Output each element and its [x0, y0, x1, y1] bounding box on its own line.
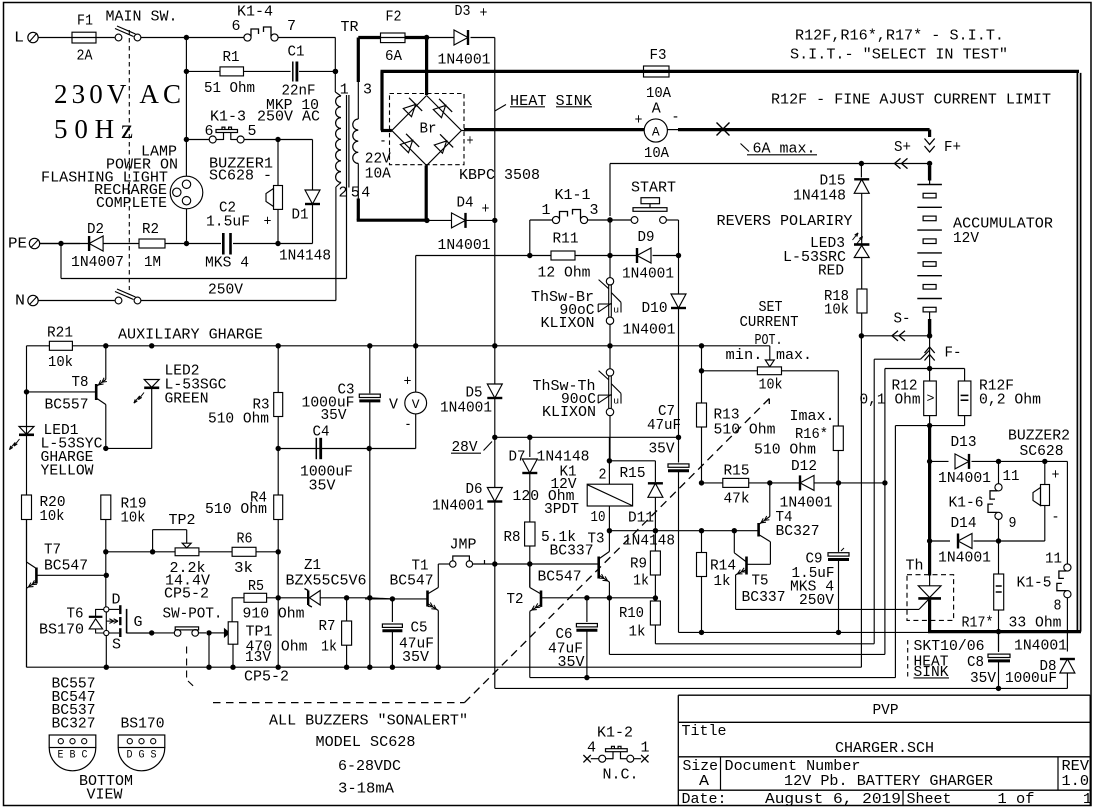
svg-text:R5: R5 [248, 578, 264, 595]
svg-text:Date:: Date: [682, 791, 727, 808]
svg-text:R17*: R17* [962, 615, 994, 632]
svg-text:BC327: BC327 [776, 523, 820, 540]
svg-text:PVP: PVP [873, 702, 899, 719]
svg-text:BC547: BC547 [44, 558, 88, 575]
svg-text:-: - [1052, 509, 1060, 526]
svg-text:BS170: BS170 [121, 716, 165, 733]
svg-text:F1: F1 [77, 13, 93, 30]
svg-text:S+: S+ [894, 139, 911, 156]
svg-text:+: + [480, 5, 488, 22]
svg-text:+: + [482, 201, 490, 218]
svg-text:12 Ohm: 12 Ohm [538, 265, 591, 282]
svg-text:K1-6: K1-6 [949, 495, 984, 512]
svg-text:+: + [404, 373, 412, 390]
svg-text:250V: 250V [208, 281, 243, 298]
svg-text:+: + [264, 214, 272, 231]
svg-text:12V: 12V [953, 230, 979, 247]
svg-text:G: G [134, 614, 143, 631]
svg-text:BS170: BS170 [39, 621, 84, 638]
svg-text:BC557: BC557 [45, 397, 89, 414]
svg-text:A: A [652, 101, 661, 118]
svg-text:10A: 10A [646, 85, 671, 102]
svg-text:1N4148: 1N4148 [793, 187, 846, 204]
svg-text:F+: F+ [944, 139, 961, 156]
svg-text:-: - [380, 133, 387, 150]
svg-text:1k: 1k [714, 573, 731, 590]
svg-text:1 of: 1 of [998, 791, 1035, 808]
svg-text:D2: D2 [87, 221, 104, 238]
svg-text:35V: 35V [309, 477, 336, 494]
svg-text:KLIXON: KLIXON [541, 315, 595, 332]
svg-text:C8: C8 [967, 654, 984, 671]
svg-text:13V: 13V [245, 649, 271, 666]
svg-text:C5: C5 [411, 620, 428, 637]
svg-text:5: 5 [248, 123, 257, 140]
svg-text:1k: 1k [321, 639, 337, 656]
svg-text:0,1: 0,1 [860, 392, 886, 409]
svg-text:R12F,R16*,R17* - S.I.T.: R12F,R16*,R17* - S.I.T. [795, 28, 1004, 45]
svg-text:R8: R8 [504, 529, 521, 546]
svg-text:S.I.T.- "SELECT IN TEST": S.I.T.- "SELECT IN TEST" [790, 47, 1008, 64]
svg-text:R21: R21 [47, 324, 73, 341]
svg-text:6: 6 [232, 18, 241, 35]
svg-text:A: A [699, 773, 709, 790]
svg-text:1k: 1k [629, 624, 646, 641]
svg-text:K1-2: K1-2 [597, 725, 633, 742]
svg-text:BZX55C5V6: BZX55C5V6 [286, 572, 367, 589]
svg-text:10A: 10A [365, 165, 391, 182]
svg-text:1.5uF: 1.5uF [206, 214, 250, 231]
svg-text:C1: C1 [288, 44, 305, 61]
svg-text:PE: PE [8, 236, 27, 253]
svg-text:2: 2 [599, 467, 607, 484]
svg-text:D10: D10 [642, 300, 668, 317]
svg-text:Imax.: Imax. [790, 408, 835, 425]
svg-text:+: + [467, 133, 474, 150]
svg-text:1N4001: 1N4001 [938, 470, 991, 487]
svg-text:+: + [1052, 467, 1060, 484]
svg-text:1: 1 [1083, 791, 1092, 808]
svg-text:47uF: 47uF [647, 417, 681, 434]
svg-text:E B C: E B C [58, 750, 88, 762]
svg-text:47k: 47k [724, 491, 750, 508]
svg-text:1N4007: 1N4007 [71, 254, 124, 271]
svg-text:D12: D12 [791, 458, 817, 475]
svg-text:CURRENT: CURRENT [740, 314, 799, 331]
svg-text:1N4001: 1N4001 [440, 400, 492, 417]
svg-text:35V: 35V [649, 440, 675, 457]
svg-text:TR: TR [341, 19, 359, 36]
svg-text:1N4001: 1N4001 [438, 52, 491, 69]
svg-text:510 Ohm: 510 Ohm [714, 421, 776, 438]
svg-text:8: 8 [1054, 598, 1062, 615]
svg-text:MAIN SW.: MAIN SW. [106, 8, 178, 25]
svg-text:L: L [14, 30, 24, 47]
svg-text:SC628: SC628 [1020, 443, 1064, 460]
svg-text:R9: R9 [630, 555, 647, 572]
svg-text:RED: RED [818, 263, 844, 280]
svg-text:Title: Title [682, 723, 727, 740]
svg-text:1N4001: 1N4001 [623, 322, 676, 339]
svg-text:1.0: 1.0 [1062, 773, 1090, 790]
svg-text:1N4001: 1N4001 [1014, 638, 1067, 655]
svg-text:11: 11 [1045, 551, 1062, 568]
svg-text:4: 4 [587, 740, 596, 757]
svg-text:7: 7 [287, 18, 296, 35]
svg-text:3k: 3k [234, 560, 253, 577]
svg-text:u: u [613, 304, 619, 315]
svg-text:D14: D14 [951, 515, 977, 532]
svg-text:250V AC: 250V AC [257, 108, 320, 125]
svg-text:KLIXON: KLIXON [542, 404, 596, 421]
svg-text:-: - [405, 417, 412, 434]
svg-text:10k: 10k [48, 354, 73, 371]
svg-text:2: 2 [339, 184, 348, 201]
svg-text:V: V [412, 397, 420, 412]
svg-text:MKS 4: MKS 4 [205, 255, 249, 272]
svg-text:F2: F2 [386, 9, 402, 26]
svg-text:2A: 2A [77, 48, 93, 65]
svg-text:0,2 Ohm: 0,2 Ohm [979, 392, 1041, 409]
svg-text:SC628 -: SC628 - [209, 168, 272, 185]
svg-text:6-28VDC: 6-28VDC [338, 758, 401, 775]
svg-text:510 Ohm: 510 Ohm [208, 411, 269, 428]
svg-text:R14: R14 [710, 557, 736, 574]
svg-text:MODEL SC628: MODEL SC628 [316, 734, 416, 751]
svg-text:D6: D6 [466, 481, 483, 498]
svg-text:T6: T6 [67, 606, 84, 623]
svg-text:BUZZER2: BUZZER2 [1008, 428, 1070, 445]
svg-text:6: 6 [205, 123, 214, 140]
svg-text:R16*: R16* [795, 426, 828, 443]
svg-text:T2: T2 [507, 591, 524, 608]
svg-text:3: 3 [363, 81, 372, 98]
svg-text:S-: S- [894, 311, 911, 328]
svg-text:START: START [631, 179, 676, 196]
svg-text:A: A [652, 125, 660, 140]
svg-text:K1-1: K1-1 [555, 187, 591, 204]
svg-text:1N4148: 1N4148 [623, 532, 675, 549]
svg-text:D4: D4 [457, 194, 474, 211]
svg-text:3: 3 [590, 202, 599, 219]
svg-text:COMPLETE: COMPLETE [96, 195, 167, 212]
svg-text:R12F - FINE AJUST CURRENT LIMI: R12F - FINE AJUST CURRENT LIMIT [771, 92, 1051, 109]
svg-text:35V: 35V [558, 654, 585, 671]
svg-text:V: V [389, 397, 398, 414]
svg-text:GREEN: GREEN [165, 391, 209, 408]
svg-text:K1-3: K1-3 [210, 108, 246, 125]
svg-text:KBPC 3508: KBPC 3508 [459, 167, 540, 184]
svg-text:4: 4 [361, 184, 370, 201]
svg-text:10k: 10k [759, 377, 783, 394]
svg-text:SW-POT.: SW-POT. [163, 605, 223, 622]
svg-text:JMP: JMP [450, 537, 477, 554]
svg-text:1M: 1M [144, 254, 161, 271]
svg-text:Sheet: Sheet [907, 791, 952, 808]
svg-text:1k: 1k [633, 572, 649, 589]
svg-text:1N4148: 1N4148 [279, 248, 331, 265]
svg-text:D9: D9 [638, 229, 655, 246]
svg-text:K1-5: K1-5 [1017, 575, 1052, 592]
svg-text:35V: 35V [402, 649, 429, 666]
svg-text:TP2: TP2 [169, 512, 196, 529]
svg-text:250V: 250V [799, 592, 834, 609]
svg-text:VIEW: VIEW [87, 786, 123, 803]
svg-text:10k: 10k [121, 510, 146, 527]
svg-text:T8: T8 [72, 374, 89, 391]
svg-text:5: 5 [351, 184, 360, 201]
svg-text:BC337: BC337 [550, 543, 594, 560]
svg-text:3PDT: 3PDT [544, 501, 579, 518]
svg-text:BC547: BC547 [390, 573, 434, 590]
svg-text:T5: T5 [752, 572, 769, 589]
svg-text:CHARGER.SCH: CHARGER.SCH [835, 740, 934, 757]
svg-text:CP5-2: CP5-2 [164, 585, 209, 602]
svg-text:>: > [927, 391, 935, 406]
svg-text:D3: D3 [455, 3, 471, 20]
svg-text:-: - [672, 109, 680, 126]
svg-text:12V Pb. BATTERY GHARGER: 12V Pb. BATTERY GHARGER [784, 773, 993, 790]
svg-text:D11: D11 [628, 510, 654, 527]
svg-text:min.: min. [726, 347, 763, 364]
svg-text:C4: C4 [313, 423, 330, 440]
svg-text:ALL BUZZERS "SONALERT": ALL BUZZERS "SONALERT" [269, 713, 468, 730]
svg-text:1N4001: 1N4001 [432, 498, 484, 515]
svg-text:11: 11 [1003, 468, 1020, 485]
svg-text:R2: R2 [142, 221, 159, 238]
svg-text:REVERS POLARIRY: REVERS POLARIRY [717, 213, 853, 230]
svg-text:510 Ohm: 510 Ohm [205, 501, 267, 518]
svg-text:CP5-2: CP5-2 [244, 669, 289, 686]
svg-text:R15: R15 [620, 465, 646, 482]
svg-text:1N4001: 1N4001 [622, 266, 674, 283]
svg-text:F3: F3 [650, 47, 667, 64]
svg-text:SKT10/06: SKT10/06 [914, 638, 985, 655]
svg-text:R10: R10 [619, 605, 644, 622]
svg-text:1: 1 [340, 81, 349, 98]
svg-text:D G S: D G S [127, 750, 157, 762]
svg-text:51 Ohm: 51 Ohm [204, 80, 255, 97]
svg-text:10: 10 [591, 509, 606, 526]
svg-text:R7: R7 [319, 618, 336, 635]
svg-text:YELLOW: YELLOW [41, 462, 94, 479]
svg-text:10k: 10k [40, 508, 65, 525]
svg-text:F-: F- [945, 345, 962, 362]
svg-text:6A: 6A [385, 48, 402, 65]
svg-text:35V: 35V [321, 407, 347, 424]
svg-text:33 Ohm: 33 Ohm [1009, 615, 1062, 632]
svg-text:Th: Th [906, 557, 924, 574]
svg-text:D1: D1 [292, 206, 309, 223]
svg-text:T7: T7 [44, 542, 61, 559]
svg-text:BC327: BC327 [52, 716, 96, 733]
svg-text:35V: 35V [970, 670, 996, 687]
svg-text:N: N [15, 293, 25, 310]
svg-text:D7: D7 [509, 448, 526, 465]
svg-text:R6: R6 [237, 531, 253, 548]
svg-text:10A: 10A [644, 145, 669, 162]
svg-text:AUXILIARY GHARGE: AUXILIARY GHARGE [118, 326, 263, 343]
svg-text:1: 1 [641, 740, 650, 757]
svg-text:R1: R1 [223, 49, 240, 66]
svg-text:max.: max. [776, 347, 812, 364]
svg-text:Ohm: Ohm [895, 392, 921, 409]
svg-text:9: 9 [1009, 515, 1017, 532]
svg-text:K1-4: K1-4 [237, 4, 273, 21]
svg-text:August 6, 2019: August 6, 2019 [765, 791, 901, 808]
svg-text:R11: R11 [553, 231, 579, 248]
svg-text:910 Ohm: 910 Ohm [243, 606, 305, 623]
svg-text:BC337: BC337 [742, 589, 786, 606]
svg-text:1: 1 [542, 202, 551, 219]
svg-text:u: u [613, 395, 619, 406]
svg-text:3-18mA: 3-18mA [338, 780, 394, 797]
svg-text:N.C.: N.C. [603, 767, 639, 784]
svg-text:+: + [635, 112, 643, 129]
svg-text:Br: Br [420, 120, 437, 137]
svg-text:BC547: BC547 [538, 569, 582, 586]
svg-text:D13: D13 [951, 434, 977, 451]
svg-text:R15: R15 [724, 462, 750, 479]
svg-text:D8: D8 [1040, 658, 1057, 675]
svg-text:1N4001: 1N4001 [438, 237, 491, 254]
svg-text:10k: 10k [824, 302, 849, 319]
svg-text:S: S [112, 637, 121, 654]
svg-text:1N4001: 1N4001 [938, 550, 991, 567]
svg-text:510 Ohm: 510 Ohm [754, 442, 816, 459]
